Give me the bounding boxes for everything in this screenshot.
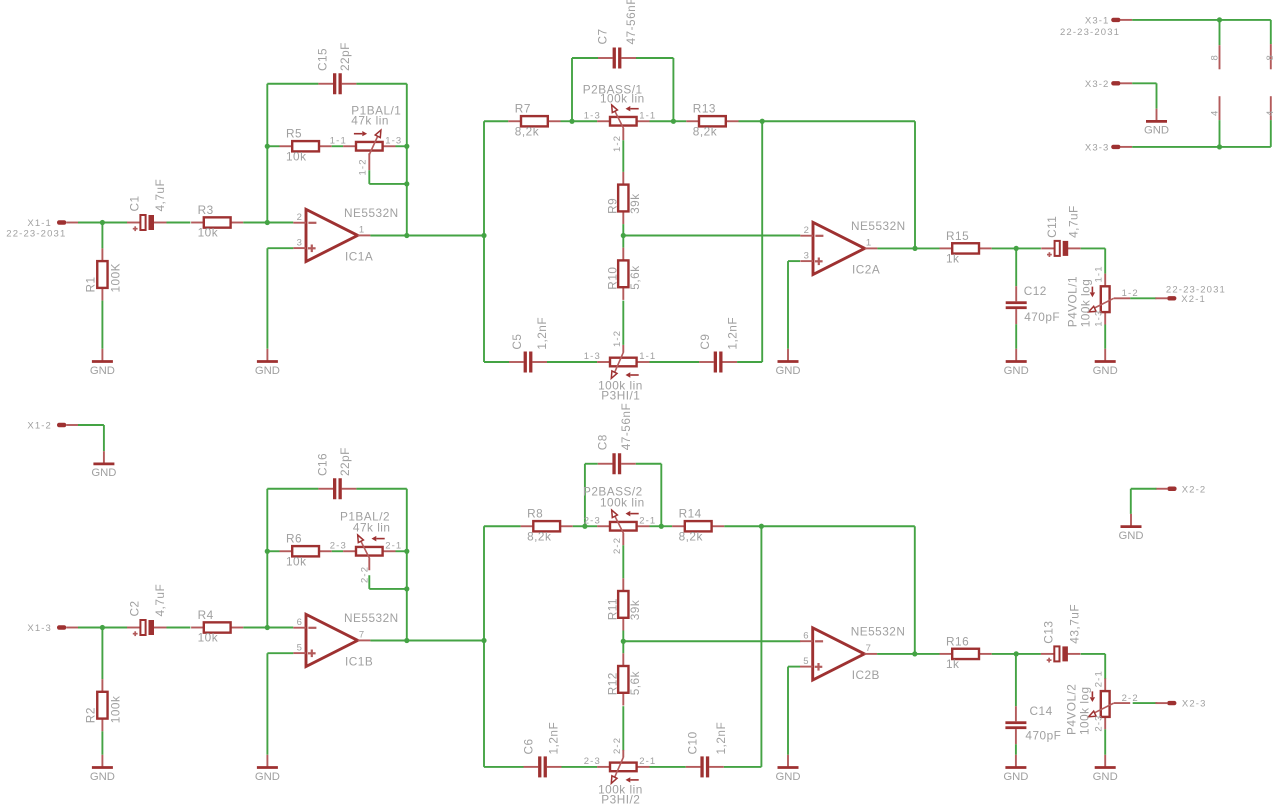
svg-text:R6: R6 [286, 532, 302, 546]
connector pin X1-2 [27, 421, 78, 432]
svg-text:R8: R8 [527, 507, 543, 521]
op-amp IC1B [293, 611, 398, 669]
svg-text:GND: GND [90, 365, 115, 377]
wire column down [483, 236, 485, 363]
wire C to R3 [167, 627, 191, 629]
svg-text:2-2: 2-2 [612, 737, 623, 754]
svg-text:1,2nF: 1,2nF [547, 722, 561, 755]
wire amp2 pin+ v [787, 261, 789, 349]
wire feedback vertical [406, 489, 408, 641]
wire pot 1-1 [650, 120, 674, 122]
resistor R5 [280, 127, 332, 164]
wire column up [483, 121, 485, 235]
wire tone left [484, 120, 508, 122]
svg-text:1-1: 1-1 [330, 135, 347, 146]
resistor R6 [280, 532, 332, 569]
svg-text:1-3: 1-3 [584, 351, 601, 362]
ground [1118, 514, 1143, 542]
wire pot to C10 [650, 766, 686, 768]
svg-text:100k log: 100k log [1078, 686, 1092, 735]
junction lowpass [1014, 651, 1019, 656]
junction bass right [671, 119, 676, 124]
svg-text:GND: GND [775, 365, 800, 377]
potentiometer P1BAL/2 [330, 509, 403, 583]
capacitor C12 [1006, 284, 1060, 324]
wire cap loop top left [267, 83, 318, 85]
wire bass cap left h [572, 57, 598, 59]
svg-text:100k log: 100k log [1079, 279, 1093, 328]
wire wiper right [369, 183, 407, 185]
svg-text:100k lin: 100k lin [598, 782, 643, 796]
connector pin X2-2 [1156, 484, 1207, 495]
wire X1-2 down [103, 425, 105, 451]
wire to Cv [1015, 654, 1017, 706]
wire col1 bottom [1219, 120, 1221, 147]
svg-text:GND: GND [1003, 771, 1028, 783]
svg-text:NE5532N: NE5532N [344, 611, 399, 625]
wire bass cap left h [585, 463, 598, 465]
resistor R3 [191, 203, 243, 240]
connector pin X3-2 [1085, 79, 1132, 90]
svg-text:100k lin: 100k lin [598, 378, 643, 392]
junction wiper [404, 181, 409, 186]
wire feedback vertical [406, 84, 408, 236]
junction bass left [569, 119, 574, 124]
wire wiper right [369, 588, 407, 590]
svg-text:8: 8 [1209, 54, 1220, 60]
svg-text:1-2: 1-2 [612, 135, 623, 152]
svg-text:R16: R16 [946, 634, 969, 648]
svg-text:R13: R13 [693, 102, 716, 116]
svg-text:GND: GND [1093, 771, 1118, 783]
svg-text:2-3: 2-3 [1094, 714, 1105, 731]
svg-text:X1-1: X1-1 [27, 218, 52, 229]
resistor R8 [521, 507, 573, 544]
svg-text:1,2nF: 1,2nF [726, 317, 740, 350]
resistor R11 [605, 578, 642, 630]
wire out to R15 [915, 247, 940, 249]
wire column up [483, 526, 485, 640]
wire R3 to node [243, 627, 267, 629]
wire node up [266, 551, 268, 627]
svg-text:47-56nF: 47-56nF [624, 0, 638, 45]
svg-text:X2-3: X2-3 [1182, 699, 1207, 710]
potentiometer P4VOL/1 [1065, 265, 1138, 327]
svg-text:R12: R12 [605, 672, 619, 695]
wire bass cap right v [672, 58, 674, 121]
svg-text:8: 8 [1265, 54, 1276, 60]
capacitor C14 [1005, 704, 1061, 744]
svg-text:IC2A: IC2A [852, 263, 880, 277]
wire tone to fb [761, 525, 914, 527]
svg-text:8,2k: 8,2k [527, 529, 551, 543]
wire R to gnd [101, 731, 103, 755]
wire amp2 pin+ h [788, 260, 800, 262]
wire R10 to wiper [622, 301, 624, 345]
svg-text:X3-2: X3-2 [1085, 79, 1110, 90]
wire X2-2 down [1130, 489, 1132, 514]
wire amp2 pin+ h [788, 666, 800, 668]
wire Cout to pot [1081, 247, 1106, 249]
svg-text:X3-3: X3-3 [1085, 143, 1110, 154]
junction mid node [621, 639, 626, 644]
wire node to R10 [622, 236, 624, 248]
wire pot to C9 [650, 361, 700, 363]
svg-text:R15: R15 [946, 229, 969, 243]
wire output to column [407, 640, 484, 642]
svg-text:NE5532N: NE5532N [344, 206, 399, 220]
svg-text:C10: C10 [685, 731, 699, 754]
wire to Cv [1015, 248, 1017, 286]
resistor R4 [191, 608, 243, 645]
op-amp IC1A [293, 206, 398, 264]
svg-text:100k: 100k [109, 696, 123, 724]
wire cap loop top right [356, 488, 406, 490]
svg-text:1-2: 1-2 [612, 330, 623, 347]
resistor R14 [672, 507, 724, 544]
wire pot top [1104, 248, 1106, 273]
svg-text:X1-2: X1-2 [27, 421, 52, 432]
wire output [370, 235, 406, 237]
ground [255, 349, 280, 377]
junction lowpass [1014, 246, 1019, 251]
potentiometer P2BASS/1 [583, 82, 657, 152]
junction input node [100, 220, 105, 225]
wire bass cap right h [636, 57, 673, 59]
svg-text:NE5532N: NE5532N [851, 624, 906, 638]
wire hi loop left [484, 361, 509, 363]
wire pin+ gnd v [266, 248, 268, 349]
wire pin+ gnd h [267, 652, 293, 654]
wire R5 left [267, 550, 279, 552]
wire C5 to pot [547, 361, 597, 363]
wire C10 to column [724, 766, 762, 768]
wire pot to gnd [1104, 729, 1106, 755]
wire node to Cout [1016, 653, 1041, 655]
wire X1-2 [78, 424, 104, 426]
svg-text:47k lin: 47k lin [351, 114, 389, 128]
svg-text:3: 3 [804, 251, 810, 262]
wire bass wiper [622, 140, 624, 172]
svg-text:100k lin: 100k lin [600, 496, 645, 510]
wire up to cap loop [266, 84, 268, 147]
wire pot 1-3 [572, 120, 597, 122]
svg-text:7: 7 [866, 643, 872, 654]
wire Cout to pot [1081, 653, 1106, 655]
wire pin+ gnd h [267, 247, 293, 249]
svg-text:43,7uF: 43,7uF [1067, 604, 1081, 644]
svg-text:GND: GND [255, 365, 280, 377]
potentiometer P3HI/2 [584, 737, 657, 807]
svg-text:GND: GND [775, 771, 800, 783]
wire tone to fb [762, 120, 915, 122]
wire pot to corner [396, 550, 407, 552]
op-amp IC2B [800, 624, 905, 682]
svg-text:1: 1 [359, 224, 365, 235]
svg-text:4,7uF: 4,7uF [153, 179, 167, 212]
svg-text:4,7uF: 4,7uF [1067, 205, 1081, 238]
svg-text:1,2nF: 1,2nF [714, 722, 728, 755]
wire bass cap right v [660, 464, 662, 527]
svg-text:1,2nF: 1,2nF [535, 317, 549, 350]
svg-text:C14: C14 [1030, 704, 1053, 718]
wire amp2 pin+ v [787, 667, 789, 755]
svg-text:470pF: 470pF [1025, 729, 1061, 743]
wire right column down [761, 121, 763, 362]
capacitor C9 [698, 317, 740, 373]
svg-text:P4VOL/1: P4VOL/1 [1065, 276, 1079, 327]
wire X2-2 [1131, 488, 1157, 490]
junction input node [100, 625, 105, 630]
wire C to R3 [167, 222, 191, 224]
resistor R12 [605, 653, 642, 705]
svg-text:C6: C6 [522, 738, 536, 754]
ground [775, 755, 800, 783]
capacitor C11 [1041, 205, 1081, 257]
wire bass cap left v [584, 464, 586, 527]
connector pin X2-3 [1155, 699, 1206, 710]
svg-text:100k lin: 100k lin [600, 92, 645, 106]
wire node to amp [623, 235, 800, 237]
svg-text:1-1: 1-1 [639, 351, 656, 362]
svg-text:C1: C1 [128, 195, 142, 211]
wire R8 to node [573, 525, 585, 527]
svg-text:C5: C5 [510, 334, 524, 350]
potentiometer P3HI/1 [584, 330, 657, 403]
junction hi right column [760, 119, 765, 124]
potentiometer P1BAL/1 [330, 104, 403, 176]
svg-text:X3-1: X3-1 [1085, 16, 1110, 27]
svg-text:C2: C2 [128, 600, 142, 616]
wire input [78, 222, 102, 224]
junction mid node [621, 233, 626, 238]
svg-text:R10: R10 [605, 267, 619, 290]
pin 4 col1 [1219, 96, 1221, 120]
ground [1093, 349, 1118, 377]
wire X3-3 ext [1220, 146, 1271, 148]
wire X3-2 [1132, 82, 1156, 84]
svg-text:470pF: 470pF [1024, 310, 1060, 324]
svg-text:10k: 10k [286, 554, 307, 568]
svg-text:7: 7 [359, 629, 365, 640]
svg-text:1-3: 1-3 [1094, 310, 1105, 327]
potentiometer P2BASS/2 [583, 484, 656, 554]
wire node to R [101, 223, 103, 249]
svg-text:X2-1: X2-1 [1181, 294, 1206, 305]
svg-text:R5: R5 [286, 127, 302, 141]
svg-text:C7: C7 [595, 28, 609, 44]
wire X3-3 [1132, 146, 1219, 148]
svg-text:GND: GND [1118, 530, 1143, 542]
svg-text:6: 6 [297, 617, 303, 628]
svg-text:C11: C11 [1045, 216, 1059, 238]
svg-text:GND: GND [91, 467, 116, 479]
svg-text:4: 4 [1265, 110, 1276, 116]
svg-text:10k: 10k [198, 631, 219, 645]
junction hi right column [759, 524, 764, 529]
connector pin X1-1 [27, 218, 78, 229]
svg-text:22-23-2031: 22-23-2031 [1060, 27, 1120, 38]
junction inverting node [265, 220, 270, 225]
wire node to amp [623, 640, 800, 642]
svg-text:8,2k: 8,2k [693, 124, 717, 138]
resistor R15 [940, 229, 992, 266]
junction output column [481, 233, 486, 238]
junction amp2 out [912, 651, 917, 656]
wire R to gnd [101, 301, 103, 349]
svg-text:R2: R2 [84, 707, 98, 723]
ground [90, 755, 115, 783]
wire R12 to wiper [622, 706, 624, 750]
svg-text:1k: 1k [946, 657, 959, 671]
svg-text:4: 4 [1209, 110, 1220, 116]
ground [775, 349, 800, 377]
wire R3 to node [243, 222, 267, 224]
svg-text:C13: C13 [1042, 621, 1056, 644]
svg-text:2-1: 2-1 [639, 756, 656, 767]
junction feedback node [265, 144, 270, 149]
connector pin X3-3 [1085, 143, 1132, 154]
wire C9 to column [737, 361, 762, 363]
capacitor C1 [127, 179, 167, 231]
svg-text:2-2: 2-2 [612, 537, 623, 554]
wire hi loop left [484, 766, 524, 768]
svg-text:2-1: 2-1 [385, 540, 402, 551]
resistor R16 [940, 634, 992, 671]
svg-text:GND: GND [1144, 125, 1169, 137]
svg-text:2-1: 2-1 [1094, 670, 1105, 687]
capacitor C2 [127, 584, 167, 636]
potentiometer P4VOL/2 [1064, 670, 1138, 735]
wire node up [266, 146, 268, 222]
capacitor C6 [522, 722, 562, 778]
wire right column down [760, 526, 762, 767]
svg-text:1-3: 1-3 [385, 135, 402, 146]
svg-text:IC1A: IC1A [345, 250, 373, 264]
capacitor C5 [509, 317, 549, 373]
ground [1144, 109, 1169, 137]
junction feedback node [265, 549, 270, 554]
svg-text:22pF: 22pF [338, 447, 352, 476]
junction bass left [582, 524, 587, 529]
pin 8 col2 [1270, 44, 1272, 69]
wire column down [483, 641, 485, 767]
wire pin- input [267, 222, 293, 224]
svg-text:C8: C8 [595, 434, 609, 450]
wire node to R12 [622, 641, 624, 653]
svg-text:1: 1 [866, 237, 872, 248]
wire col2 bottom [1270, 120, 1272, 147]
svg-text:GND: GND [1004, 365, 1029, 377]
wire pot to corner [396, 145, 407, 147]
resistor R10 [605, 248, 642, 300]
junction X3-3 [1217, 144, 1222, 149]
svg-text:C9: C9 [698, 334, 712, 350]
wire X3-1 ext [1220, 19, 1271, 21]
svg-text:5: 5 [803, 656, 809, 667]
wire pin- input [267, 627, 293, 629]
svg-text:6: 6 [803, 631, 809, 642]
wire bass cap left v [571, 58, 573, 121]
svg-text:5: 5 [297, 643, 303, 654]
svg-text:10k: 10k [286, 149, 307, 163]
svg-text:10k: 10k [198, 226, 219, 240]
wire Cv to gnd [1015, 744, 1017, 755]
wire R14 to node [724, 525, 761, 527]
svg-text:47-56nF: 47-56nF [619, 403, 633, 450]
wire X3-1 [1132, 19, 1219, 21]
svg-text:IC1B: IC1B [345, 655, 373, 669]
junction pot right [404, 144, 409, 149]
wire node to R [101, 628, 103, 680]
pin 8 col1 [1219, 45, 1221, 69]
resistor R2 [84, 679, 123, 731]
svg-text:8,2k: 8,2k [515, 124, 539, 138]
svg-text:2-3: 2-3 [330, 540, 347, 551]
wire R11 to node [622, 631, 624, 642]
ground [1004, 349, 1029, 377]
junction pot right [404, 549, 409, 554]
ground [1093, 755, 1118, 783]
ground [1003, 755, 1028, 783]
junction X3-1 [1217, 17, 1222, 22]
connector pin X3-1 [1085, 16, 1132, 27]
svg-text:2-1: 2-1 [639, 515, 656, 526]
wire to R13 [673, 120, 686, 122]
svg-text:39k: 39k [628, 193, 642, 214]
wire out to R15 [915, 653, 940, 655]
wire input [78, 627, 102, 629]
wire amp2 out pin [877, 653, 915, 655]
svg-text:100K: 100K [109, 263, 123, 293]
capacitor C13 [1041, 604, 1081, 663]
wire wiper down [368, 170, 370, 184]
wire wiper out [1130, 297, 1156, 299]
wire output to column [407, 235, 484, 237]
svg-text:C12: C12 [1024, 284, 1047, 298]
wire bass cap right h [636, 463, 662, 465]
wire up to cap loop [266, 489, 268, 552]
pin 4 col2 [1270, 96, 1272, 120]
svg-text:R14: R14 [679, 507, 702, 521]
wire pin+ gnd v [266, 653, 268, 755]
wire R15 to node [992, 247, 1017, 249]
wire R7 to node [561, 120, 573, 122]
svg-text:22pF: 22pF [338, 42, 352, 71]
svg-text:1-1: 1-1 [639, 110, 656, 121]
svg-text:R9: R9 [605, 198, 619, 214]
capacitor C15 [315, 42, 356, 94]
svg-text:39k: 39k [628, 600, 642, 621]
svg-text:5,6k: 5,6k [628, 671, 642, 695]
svg-text:2: 2 [297, 212, 303, 223]
wire to C-in [102, 222, 127, 224]
wire tone left [484, 525, 521, 527]
wire Cv to gnd [1015, 324, 1017, 349]
svg-text:8,2k: 8,2k [679, 529, 703, 543]
svg-text:5,6k: 5,6k [628, 265, 642, 289]
svg-text:3: 3 [297, 238, 303, 249]
wire pot to gnd [1104, 325, 1106, 349]
svg-text:R1: R1 [84, 276, 98, 292]
wire R9 to node [622, 224, 624, 235]
svg-text:1-1: 1-1 [1094, 265, 1105, 282]
wire C6 to pot [562, 766, 598, 768]
wire fb down [914, 526, 916, 654]
svg-text:R11: R11 [605, 598, 619, 620]
svg-text:C15: C15 [315, 48, 329, 71]
svg-text:GND: GND [90, 771, 115, 783]
